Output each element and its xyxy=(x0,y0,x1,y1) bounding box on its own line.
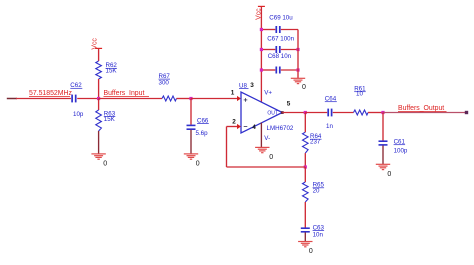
node C junction xyxy=(304,111,307,114)
capacitor C61 xyxy=(379,139,408,155)
wire node B to op-amp pin 1 xyxy=(191,98,239,100)
svg-text:15K: 15K xyxy=(106,68,118,75)
svg-text:1: 1 xyxy=(231,90,235,97)
wire output pin 5 to node C xyxy=(282,112,305,114)
node input label 57.51852MHz xyxy=(29,90,72,97)
capacitor C67 xyxy=(261,35,298,53)
resistor R62 xyxy=(96,61,118,79)
ground below R63 xyxy=(91,154,107,168)
svg-text:V+: V+ xyxy=(264,90,272,97)
wire C64 to R61 xyxy=(333,112,354,114)
wire Vcc rail / V+ rail xyxy=(260,6,262,102)
resistor R64 xyxy=(303,132,322,153)
net label Buffers_Input xyxy=(104,90,150,97)
svg-text:300: 300 xyxy=(159,79,170,86)
svg-text:100p: 100p xyxy=(394,147,408,154)
node B junction xyxy=(189,97,192,100)
svg-text:20: 20 xyxy=(313,187,320,194)
wire node A to R63 xyxy=(98,99,100,111)
node junction C68 left xyxy=(260,68,263,71)
op-amp minus mark xyxy=(244,126,248,128)
node junction C68 right xyxy=(296,68,299,71)
wire C61 to ground xyxy=(382,146,384,165)
resistor R63 xyxy=(96,110,116,131)
Vcc symbol left xyxy=(91,38,102,50)
svg-text:0: 0 xyxy=(302,84,306,91)
node junction C67 left xyxy=(260,48,263,51)
wire node A to R67 xyxy=(99,98,162,100)
svg-text:0: 0 xyxy=(387,171,391,178)
svg-text:Vcc: Vcc xyxy=(91,38,98,50)
ground below C66 xyxy=(184,154,200,168)
svg-text:C68 10n: C68 10n xyxy=(268,53,292,60)
svg-text:0: 0 xyxy=(103,161,107,168)
op-amp U1 triangle xyxy=(239,83,294,143)
svg-text:C69 10u: C69 10u xyxy=(269,14,293,21)
wire C62 to node A xyxy=(77,98,98,100)
node E junction xyxy=(304,165,307,168)
node junction C67 right xyxy=(296,48,299,51)
wire V- pin to ground xyxy=(260,123,262,148)
wire feedback to op-amp pin 2 xyxy=(227,126,239,128)
capacitor C62 xyxy=(70,82,84,118)
capacitor C64 xyxy=(325,96,337,131)
wire R67 to node B xyxy=(177,98,192,100)
svg-text:1n: 1n xyxy=(326,123,333,130)
svg-text:57.51852MHz: 57.51852MHz xyxy=(29,90,72,97)
wire node C to R64 xyxy=(304,113,306,133)
wire node B to C66 xyxy=(190,99,192,125)
node A junction xyxy=(97,97,100,100)
node output end dot xyxy=(465,111,468,114)
resistor R65 xyxy=(303,182,325,202)
wire R64 to node E xyxy=(304,153,306,167)
svg-text:0: 0 xyxy=(309,248,313,255)
svg-text:V-: V- xyxy=(264,135,270,142)
svg-text:5.6p: 5.6p xyxy=(196,130,209,137)
wire feedback left vertical xyxy=(226,127,228,168)
capacitor C68 xyxy=(261,53,298,74)
ground below C61 xyxy=(376,164,392,178)
wire R62 to node A xyxy=(98,79,100,99)
resistor R67 xyxy=(159,73,177,101)
ground below op-amp xyxy=(255,147,273,160)
svg-text:15K: 15K xyxy=(104,116,116,123)
capacitor C66 xyxy=(187,118,209,138)
svg-text:10n: 10n xyxy=(313,231,324,238)
node D junction xyxy=(381,111,384,114)
wire Vcc bar to R62 xyxy=(98,48,100,61)
pin 2 arrowhead xyxy=(237,124,241,129)
svg-text:0: 0 xyxy=(196,161,200,168)
capacitor C69 xyxy=(261,14,298,33)
wire node E to R65 xyxy=(304,167,306,182)
svg-text:LMH6702: LMH6702 xyxy=(267,125,294,132)
wire node C to C64 xyxy=(305,112,327,114)
svg-text:C67 100n: C67 100n xyxy=(267,35,294,42)
wire node D to C61 xyxy=(382,113,384,141)
wire R63 to ground xyxy=(98,131,100,154)
wire C66 to ground xyxy=(190,130,192,154)
wire R65 to C63 xyxy=(304,202,306,228)
svg-text:2: 2 xyxy=(232,119,236,126)
svg-text:5: 5 xyxy=(287,101,291,108)
svg-text:OUT: OUT xyxy=(267,110,278,116)
wire node D to output end xyxy=(383,112,467,114)
node junction C69 left xyxy=(260,28,263,31)
svg-text:10: 10 xyxy=(356,90,363,97)
op-amp plus mark xyxy=(244,98,248,102)
svg-text:237: 237 xyxy=(310,139,321,146)
node output pin dot xyxy=(281,111,284,114)
wire input left to C62 xyxy=(16,98,71,100)
svg-text:0: 0 xyxy=(269,154,273,161)
capacitor C63 xyxy=(301,225,325,239)
svg-text:10p: 10p xyxy=(73,111,84,118)
wire R61 to node D xyxy=(368,112,383,114)
ground below C63 xyxy=(298,242,313,256)
wire C63 to ground xyxy=(304,232,306,241)
wire input dark end segment xyxy=(7,98,17,100)
wire feedback bottom xyxy=(227,166,306,168)
Vcc symbol top xyxy=(255,6,265,20)
resistor R61 xyxy=(354,86,369,115)
pin 1 arrowhead xyxy=(237,96,241,101)
svg-text:3: 3 xyxy=(250,82,254,89)
svg-text:4: 4 xyxy=(252,124,256,131)
ground cap bank xyxy=(291,78,306,91)
net label Buffers_Output xyxy=(398,105,447,112)
wire cap bank right rail xyxy=(297,30,299,79)
